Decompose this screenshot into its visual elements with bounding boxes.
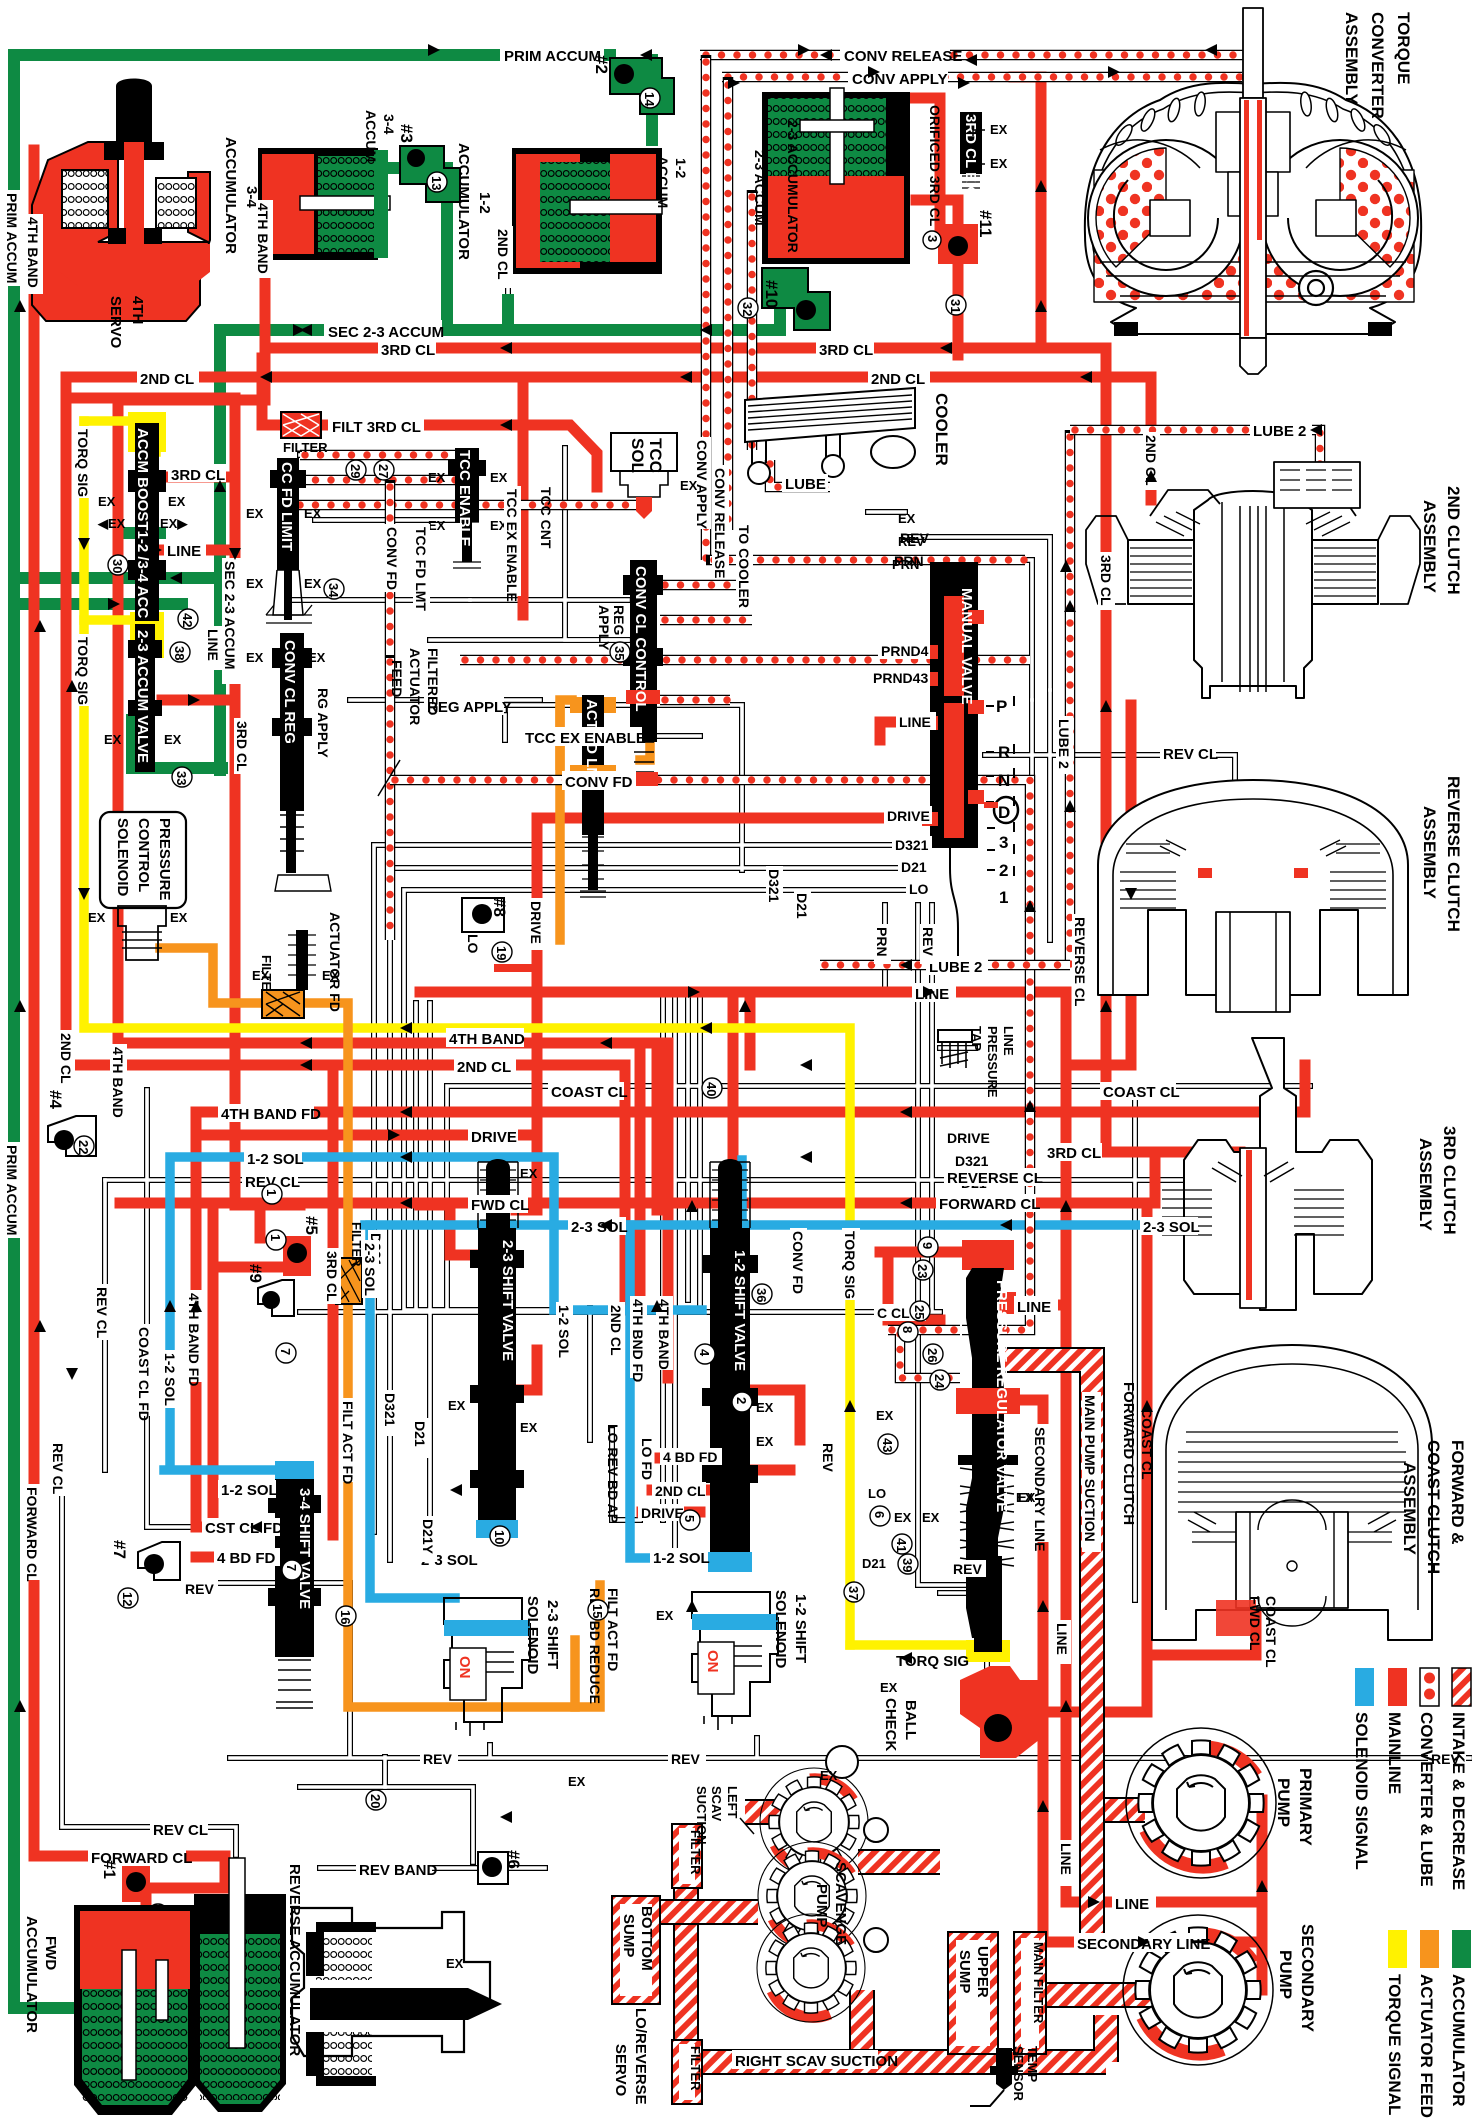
wire 1-2 SOL blue main bbox=[164, 1157, 702, 1470]
svg-text:#3: #3 bbox=[397, 124, 416, 143]
label COOLER vertical bbox=[932, 393, 951, 466]
label TO COOLER vertical bbox=[736, 522, 753, 608]
svg-text:ON: ON bbox=[704, 1650, 721, 1673]
wire REV bottom long channel bbox=[215, 1565, 1470, 1758]
label 3RD CLUTCH ASSEMBLY bbox=[1416, 1126, 1459, 1235]
label 3RD CL trunk bbox=[378, 339, 436, 359]
label REVERSE CLUTCH ASSEMBLY bbox=[1420, 776, 1463, 932]
wire TCC EX ENABLE channel bbox=[527, 733, 700, 739]
svg-text:COAST CL: COAST CL bbox=[551, 1084, 628, 1101]
svg-text:9: 9 bbox=[920, 1242, 935, 1249]
svg-text:RG APPLY: RG APPLY bbox=[315, 688, 331, 758]
svg-text:RIGHT SCAV SUCTION: RIGHT SCAV SUCTION bbox=[735, 2053, 898, 2070]
label TCC FD LMT vertical bbox=[413, 524, 430, 611]
label D321 vertical bbox=[766, 866, 783, 914]
valve ACT FD LMT bbox=[560, 695, 616, 897]
label REV regulator bbox=[950, 1560, 986, 1577]
svg-text:FWD: FWD bbox=[42, 1936, 59, 1970]
ball check 5 bbox=[266, 1230, 311, 1276]
label LINE hatched vertical bbox=[1054, 1620, 1071, 1664]
legend swatch INTAKE and DECREASE bbox=[1449, 1668, 1471, 1890]
svg-text:LUBE 2: LUBE 2 bbox=[929, 959, 982, 976]
wire scavenge discharge hatched bbox=[686, 1812, 862, 2095]
ball check 2 bbox=[610, 58, 674, 114]
svg-text:REVERSE CL: REVERSE CL bbox=[947, 1170, 1043, 1187]
label REV long line bbox=[420, 1750, 458, 1767]
svg-text:FWD CL: FWD CL bbox=[471, 1197, 529, 1214]
wire conv apply vertical dotted bbox=[723, 77, 734, 530]
label EX pressure control solenoid bbox=[88, 910, 188, 925]
label LINE pump bbox=[1112, 1893, 1156, 1913]
label 4TH BAND FD bbox=[218, 1104, 321, 1123]
wire LUBE 2 upper dotted bbox=[1070, 430, 1320, 502]
svg-text:TCC EX ENABLE: TCC EX ENABLE bbox=[504, 489, 520, 602]
wire LINE to 4th band connector red bbox=[745, 992, 756, 1065]
svg-text:REV: REV bbox=[820, 1443, 836, 1472]
svg-text:PUMP: PUMP bbox=[813, 1884, 830, 1927]
svg-text:SEC 2-3 ACCUM: SEC 2-3 ACCUM bbox=[328, 324, 444, 341]
svg-text:4TH: 4TH bbox=[129, 296, 146, 324]
label D21Y thin vertical bbox=[420, 1516, 437, 1562]
solenoid 2-3 SHIFT SOLENOID bbox=[444, 1598, 530, 1736]
component FILTER top (3rd cl filter) bbox=[281, 412, 321, 438]
svg-text:3RD CLUTCH: 3RD CLUTCH bbox=[1440, 1126, 1459, 1235]
svg-text:43: 43 bbox=[880, 1438, 895, 1452]
svg-text:SERVO: SERVO bbox=[612, 2044, 629, 2097]
svg-text:EX: EX bbox=[428, 470, 446, 485]
circled numbers bottom bbox=[262, 1078, 950, 1626]
label CONV RELEASE vertical bbox=[712, 465, 729, 578]
svg-text:4TH BAND: 4TH BAND bbox=[110, 1047, 126, 1118]
svg-text:LO: LO bbox=[465, 934, 481, 954]
svg-text:15: 15 bbox=[590, 1604, 605, 1618]
svg-text:D21Y: D21Y bbox=[420, 1519, 436, 1555]
svg-text:LINE: LINE bbox=[205, 629, 221, 661]
label SCAV SUCTION bbox=[694, 1786, 724, 1845]
svg-text:ASSEMBLY: ASSEMBLY bbox=[1420, 500, 1439, 594]
svg-text:LINE: LINE bbox=[1054, 1623, 1070, 1655]
svg-text:TAP: TAP bbox=[969, 1026, 984, 1051]
svg-text:EX: EX bbox=[922, 1510, 940, 1525]
svg-text:FORWARD &: FORWARD & bbox=[1448, 1440, 1467, 1545]
wire D321 from manual valve bbox=[374, 845, 930, 1532]
svg-text:UPPER: UPPER bbox=[974, 1946, 991, 1998]
label CST CL FD bbox=[202, 1518, 283, 1537]
component MAIN FILTER bbox=[1014, 1932, 1046, 2054]
svg-text:REV CL: REV CL bbox=[153, 1822, 208, 1839]
svg-text:FILT 3RD CL: FILT 3RD CL bbox=[332, 419, 421, 436]
svg-text:EX: EX bbox=[246, 650, 264, 665]
label SEC 2-3 ACCUM vertical bbox=[222, 558, 241, 684]
svg-text:PUMP: PUMP bbox=[1276, 1950, 1295, 1999]
svg-text:CONVERTER & LUBE: CONVERTER & LUBE bbox=[1417, 1712, 1436, 1887]
valve CONV CL REG bbox=[272, 633, 331, 891]
svg-text:LO: LO bbox=[909, 881, 929, 897]
svg-text:31: 31 bbox=[948, 299, 963, 313]
wire green 2-3 accum valve left side bbox=[126, 533, 222, 768]
valve 1-2 SHIFT VALVE bbox=[702, 1159, 758, 1572]
wire 3-4 shift valve left ports bbox=[200, 1527, 278, 1557]
wire tcc maze dotted h2 bbox=[295, 500, 640, 511]
wire cooler lube dotted bbox=[770, 460, 830, 487]
component FWD ACCUMULATOR bbox=[74, 1905, 196, 2115]
wire 2-3 accum to ball 11 red bbox=[916, 200, 958, 355]
svg-text:#8: #8 bbox=[490, 898, 509, 917]
wire LINE red to pressure regulator bbox=[1005, 1300, 1066, 1311]
wire PRIM ACCUM green top bbox=[14, 49, 610, 61]
label 2ND CLUTCH ASSEMBLY bbox=[1420, 486, 1463, 595]
label RIGHT SCAV SUCTION bbox=[732, 2050, 898, 2070]
svg-text:TCC ENABLE: TCC ENABLE bbox=[456, 450, 473, 547]
wire REV CL vertical left bbox=[102, 1180, 108, 1470]
svg-text:1-2: 1-2 bbox=[673, 158, 689, 178]
label D21 fan bbox=[958, 1174, 994, 1191]
wire 1-2 SOL blue bottom bbox=[630, 1225, 740, 1558]
label REV long line right bbox=[668, 1750, 706, 1767]
label 4 BD FD port bbox=[660, 1448, 722, 1465]
svg-text:FORWARD CL: FORWARD CL bbox=[939, 1196, 1040, 1213]
label SEC 2-3 ACCUM bbox=[324, 320, 444, 341]
svg-text:24: 24 bbox=[932, 1374, 947, 1389]
component 2-3 ACCUMULATOR bbox=[762, 88, 910, 264]
svg-text:EX: EX bbox=[568, 1774, 586, 1789]
wire FORWARD CLUTCH right vertical red bbox=[1050, 1203, 1147, 1712]
svg-text:4TH BAND: 4TH BAND bbox=[255, 203, 271, 274]
svg-text:1-2 SOL: 1-2 SOL bbox=[221, 1482, 278, 1499]
ball check 11 bbox=[923, 224, 978, 315]
label 1-2 SOL bbox=[244, 1149, 304, 1168]
wire TCC CNT channel bbox=[565, 448, 628, 640]
component TEMP SENSOR bbox=[970, 2048, 1018, 2106]
svg-text:N: N bbox=[998, 771, 1010, 790]
wire middle bundle verticals bbox=[663, 995, 700, 1560]
svg-text:2ND CL: 2ND CL bbox=[495, 229, 511, 280]
wire 4TH BAND accum drop red bbox=[118, 268, 265, 1043]
label LO manual bbox=[906, 880, 932, 897]
component 2ND CLUTCH ASSEMBLY bbox=[1086, 462, 1420, 698]
label CONV APPLY vertical bbox=[694, 437, 711, 530]
wire yellow frame accm boost bbox=[128, 412, 166, 452]
svg-text:APPLY: APPLY bbox=[596, 605, 612, 651]
ball check 9 bbox=[258, 1280, 296, 1363]
svg-text:2-3 ACCUMULATOR: 2-3 ACCUMULATOR bbox=[785, 120, 801, 253]
wire 4TH BAND FD vertical left red bbox=[196, 1112, 268, 1527]
svg-text:EX: EX bbox=[990, 156, 1008, 171]
label REV vertical low bbox=[820, 1440, 837, 1480]
label 2-3 SOL drop bbox=[418, 1550, 478, 1569]
svg-text:SERVO: SERVO bbox=[107, 296, 124, 349]
svg-text:TCC EX ENABLE: TCC EX ENABLE bbox=[525, 730, 646, 747]
svg-text:PRESSURE: PRESSURE bbox=[985, 1026, 1000, 1098]
svg-text:1: 1 bbox=[999, 888, 1008, 907]
label FWD CL bbox=[468, 1195, 529, 1214]
label COAST CL left bbox=[548, 1082, 628, 1101]
svg-text:2-3 SOL: 2-3 SOL bbox=[1143, 1219, 1200, 1236]
svg-text:39: 39 bbox=[900, 1558, 915, 1572]
svg-text:MAINLINE: MAINLINE bbox=[1385, 1712, 1404, 1794]
svg-text:#5: #5 bbox=[302, 1216, 321, 1235]
wire DRIVE red from manual valve bbox=[196, 818, 935, 1135]
label LUBE bbox=[782, 474, 828, 493]
wire 4TH BAND FD red bbox=[196, 1065, 1305, 1112]
label TORQ SIG vertical 1 bbox=[75, 426, 93, 498]
label TORQ SIG vertical 2 bbox=[75, 634, 93, 706]
label REV BAND bbox=[356, 1860, 438, 1879]
svg-text:REVERSE CLUTCH: REVERSE CLUTCH bbox=[1444, 776, 1463, 932]
wire FILT 3RD CL red bbox=[262, 358, 597, 487]
label 2ND CL right bbox=[868, 368, 930, 388]
label REV vertical bbox=[920, 924, 937, 964]
svg-text:2ND CL: 2ND CL bbox=[608, 1305, 624, 1356]
wire to cooler vertical dotted bbox=[747, 190, 758, 450]
svg-text:LINE: LINE bbox=[1058, 1843, 1074, 1875]
valve PRESSURE REGULATOR VALVE bbox=[956, 1240, 1020, 1662]
component 4TH SERVO bbox=[32, 79, 210, 322]
component BALL CHECK bbox=[960, 1666, 1044, 1758]
label D321 thin vertical bbox=[382, 1390, 399, 1436]
wire 4TH BAND servo drop red bbox=[29, 150, 40, 1856]
wire TORQ SIG yellow to regulator bbox=[850, 1640, 965, 1650]
svg-text:23: 23 bbox=[915, 1264, 930, 1278]
label TORQUE CONVERTER ASSEMBLY bbox=[1342, 12, 1413, 119]
valve 3-4 SHIFT VALVE bbox=[268, 1461, 321, 1708]
label PRND43 bbox=[870, 668, 930, 686]
label REV CL vertical low bbox=[50, 1440, 67, 1496]
label LINE accm boost bbox=[164, 540, 206, 560]
svg-text:LO FD: LO FD bbox=[639, 1438, 655, 1480]
svg-text:FILT ACT FD: FILT ACT FD bbox=[605, 1588, 621, 1671]
svg-text:D21: D21 bbox=[794, 893, 810, 919]
component TORQUE CONVERTER ASSEMBLY bbox=[1085, 8, 1421, 374]
svg-text:SOL: SOL bbox=[628, 438, 647, 473]
label DRIVE fan bbox=[944, 1128, 992, 1146]
svg-text:ASSEMBLY: ASSEMBLY bbox=[1342, 12, 1361, 106]
svg-text:2ND CL: 2ND CL bbox=[655, 1483, 706, 1499]
svg-text:D21: D21 bbox=[901, 859, 927, 875]
svg-text:CC FD LIMIT: CC FD LIMIT bbox=[278, 462, 295, 551]
svg-text:EX: EX bbox=[756, 1400, 774, 1415]
component 1-2 ACCUMULATOR bbox=[512, 148, 662, 274]
svg-text:LO: LO bbox=[868, 1486, 886, 1501]
ball check 6 bbox=[478, 1852, 508, 1884]
label 3-4 ACCUMULATOR bbox=[222, 137, 260, 254]
svg-text:PRN: PRN bbox=[874, 927, 890, 957]
svg-text:CONV CL CONTROL: CONV CL CONTROL bbox=[632, 566, 649, 712]
component FILTER orange small (filt act fd lower) bbox=[336, 1258, 362, 1304]
svg-text:LINE: LINE bbox=[1115, 1896, 1149, 1913]
wire REV vertical below manual valve bbox=[918, 905, 965, 1585]
svg-text:1-2 SHIFT: 1-2 SHIFT bbox=[792, 1594, 809, 1663]
svg-text:REV CL: REV CL bbox=[94, 1287, 110, 1339]
label number8 bbox=[465, 898, 509, 954]
wire secondary line pump red bbox=[1043, 1942, 1262, 1990]
wire COAST CL FD vertical bbox=[147, 1090, 200, 1527]
svg-text:PRIM ACCUM: PRIM ACCUM bbox=[504, 48, 601, 65]
label REVERSE CL vertical bbox=[1072, 914, 1089, 1007]
svg-text:D321: D321 bbox=[382, 1393, 398, 1427]
svg-text:ACTUATOR: ACTUATOR bbox=[407, 648, 423, 725]
label PRIM ACCUM bbox=[500, 44, 604, 65]
wire FWD CL red bbox=[120, 1152, 1155, 1203]
label EX pairs accm boost bbox=[97, 494, 188, 531]
wire REV CL red top right bbox=[1147, 1600, 1256, 1655]
svg-text:EX: EX bbox=[520, 1166, 538, 1181]
svg-text:D321: D321 bbox=[766, 869, 782, 903]
label DRIVE vertical bbox=[528, 898, 545, 950]
label 1-2 SOL vertical mid2 bbox=[556, 1302, 573, 1360]
svg-text:EX: EX bbox=[490, 470, 508, 485]
wire D21 from manual valve bbox=[390, 868, 928, 1560]
wire accm boost 3rd cl drop red bbox=[158, 545, 235, 556]
wire SECONDARY LINE red bbox=[1038, 1400, 1049, 1942]
valve ACCM BOOST 1-2/3-4 ACC bbox=[128, 423, 166, 621]
wire ball 8 to drive stub bbox=[498, 964, 537, 972]
label DRIVE left bbox=[468, 1127, 518, 1146]
svg-text:3-4: 3-4 bbox=[381, 114, 397, 134]
svg-text:DRIVE: DRIVE bbox=[641, 1505, 684, 1521]
svg-text:3RD CL: 3RD CL bbox=[819, 342, 873, 359]
legend swatch ACTUATOR FEED bbox=[1417, 1930, 1439, 2118]
label EX orificed bbox=[973, 122, 1008, 171]
svg-text:29: 29 bbox=[348, 464, 363, 478]
label 1-2 SOL mid bbox=[650, 1548, 710, 1567]
component REVERSE ACCUMULATOR bbox=[194, 1858, 286, 2112]
svg-text:EX: EX bbox=[446, 1956, 464, 1971]
label LO fan bbox=[964, 1196, 994, 1213]
svg-text:DRIVE: DRIVE bbox=[471, 1129, 517, 1146]
svg-text:EX: EX bbox=[820, 1768, 838, 1783]
label TORQ SIG vertical mid bbox=[842, 1228, 860, 1300]
svg-text:FORWARD CL: FORWARD CL bbox=[24, 1487, 40, 1582]
svg-text:6: 6 bbox=[872, 1511, 887, 1518]
solenoid TCC SOL bbox=[611, 433, 677, 519]
svg-text:EX: EX bbox=[428, 518, 446, 533]
svg-text:PRESSURE REGULATOR VALVE: PRESSURE REGULATOR VALVE bbox=[993, 1280, 1010, 1512]
wire SEC 2-3 ACCUM green bbox=[232, 280, 780, 330]
svg-text:P: P bbox=[996, 697, 1007, 716]
svg-text:EX▶: EX▶ bbox=[160, 516, 188, 531]
label SECONDARY PUMP bbox=[1276, 1924, 1317, 2033]
svg-text:LO/REVERSE: LO/REVERSE bbox=[632, 2008, 649, 2105]
svg-text:R: R bbox=[998, 743, 1010, 762]
valve MANUAL VALVE bbox=[922, 562, 984, 963]
svg-text:1-2: 1-2 bbox=[476, 192, 493, 214]
svg-text:2-3 ACCUM VALVE: 2-3 ACCUM VALVE bbox=[134, 630, 151, 763]
label PRIM ACCUM vertical bottom bbox=[4, 1142, 23, 1238]
svg-text:38: 38 bbox=[172, 646, 187, 660]
wire CONV APPLY dotted bbox=[722, 72, 1242, 83]
svg-text:5: 5 bbox=[682, 1515, 697, 1522]
svg-text:3RD CL: 3RD CL bbox=[1047, 1145, 1101, 1162]
label 2ND CL vertical right bbox=[1143, 432, 1160, 490]
svg-text:42: 42 bbox=[180, 613, 195, 627]
legend swatch SOLENOID SIGNAL bbox=[1352, 1668, 1374, 1870]
valve CONV CL REG lower spring bbox=[252, 930, 340, 1000]
ball check 1 bbox=[122, 1866, 168, 1924]
svg-text:REV CL: REV CL bbox=[50, 1443, 66, 1495]
wire 3RD CL red main bbox=[270, 77, 1240, 1152]
legend swatch CONVERTER and LUBE bbox=[1417, 1668, 1439, 1887]
label SCAVENGE PUMP bbox=[813, 1862, 849, 1945]
svg-text:20: 20 bbox=[368, 1794, 383, 1808]
wire LINE red manual valve stub bbox=[880, 722, 935, 740]
svg-text:19: 19 bbox=[494, 946, 509, 960]
svg-text:◀EX: ◀EX bbox=[97, 516, 126, 531]
svg-text:ASSEMBLY: ASSEMBLY bbox=[1416, 1138, 1435, 1232]
svg-text:FILTER: FILTER bbox=[283, 440, 328, 455]
label CC FD LIMIT EX bbox=[246, 506, 322, 591]
label FORWARD CL bbox=[936, 1194, 1040, 1213]
svg-text:#4: #4 bbox=[46, 1090, 65, 1109]
svg-text:33: 33 bbox=[174, 771, 189, 785]
svg-text:TORQ SIG: TORQ SIG bbox=[842, 1231, 858, 1299]
svg-text:DRIVE: DRIVE bbox=[947, 1130, 990, 1146]
svg-text:ACTUATOR FEED: ACTUATOR FEED bbox=[1417, 1974, 1436, 2118]
wire orange act fd lmt loop bbox=[560, 660, 650, 940]
svg-text:ACCUMULATOR: ACCUMULATOR bbox=[1449, 1974, 1468, 2107]
wire green sec accum left drops bbox=[214, 330, 226, 770]
svg-text:TORQUE SIGNAL: TORQUE SIGNAL bbox=[1385, 1974, 1404, 2115]
svg-text:LUBE: LUBE bbox=[785, 476, 826, 493]
label CONV FD horizontal bbox=[562, 771, 636, 791]
wire conv release vertical dotted bbox=[701, 55, 712, 560]
svg-text:3-4 SHIFT VALVE: 3-4 SHIFT VALVE bbox=[296, 1488, 313, 1609]
svg-text:4 BD FD: 4 BD FD bbox=[217, 1550, 276, 1567]
label REV CL left bbox=[242, 1172, 300, 1191]
svg-text:#7: #7 bbox=[110, 1540, 129, 1559]
label SECONDARY LINE pump bbox=[1074, 1933, 1210, 1953]
svg-text:TORQ SIG: TORQ SIG bbox=[75, 429, 91, 497]
svg-text:8: 8 bbox=[900, 1326, 915, 1333]
svg-text:2ND CLUTCH: 2ND CLUTCH bbox=[1444, 486, 1463, 595]
svg-text:10: 10 bbox=[492, 1530, 507, 1544]
svg-text:INTAKE & DECREASE: INTAKE & DECREASE bbox=[1449, 1712, 1468, 1890]
svg-text:1-2 SOL: 1-2 SOL bbox=[653, 1550, 710, 1567]
svg-text:PRND43: PRND43 bbox=[873, 670, 928, 686]
label 2ND CL horizontal lower bbox=[454, 1056, 516, 1076]
wire COAST CL horizontal bbox=[447, 1086, 1310, 1310]
wire LINE red main bbox=[420, 992, 1066, 1902]
wire 2-3 SOL blue main bbox=[365, 1220, 1310, 1230]
label COAST CL right bbox=[1100, 1082, 1180, 1101]
svg-text:ACTUATOR FD: ACTUATOR FD bbox=[327, 912, 343, 1012]
svg-text:REV: REV bbox=[900, 530, 929, 546]
svg-text:COAST CL: COAST CL bbox=[1139, 1408, 1155, 1480]
svg-text:EX: EX bbox=[520, 1420, 538, 1435]
label 2-3 SOL left bbox=[568, 1217, 628, 1236]
svg-text:EX: EX bbox=[448, 1398, 466, 1413]
svg-text:ACCUMULATOR: ACCUMULATOR bbox=[222, 137, 239, 254]
label LUBE 2 horizontal upper bbox=[1250, 420, 1312, 440]
label 3-4 ACCUM ball3 bbox=[363, 110, 416, 162]
svg-text:35: 35 bbox=[612, 646, 627, 660]
component SCAVENGE PUMP bbox=[757, 1746, 888, 2022]
label TCC EX ENABLE horizontal bbox=[522, 727, 646, 747]
label 3RD CL vertical right bbox=[1098, 552, 1115, 610]
svg-text:DRIVE: DRIVE bbox=[528, 901, 544, 944]
legend swatch ACCUMULATOR bbox=[1449, 1930, 1471, 2107]
svg-text:2ND CL: 2ND CL bbox=[140, 371, 194, 388]
svg-text:EX: EX bbox=[756, 1434, 774, 1449]
svg-text:EX: EX bbox=[876, 1408, 894, 1423]
svg-text:LINE: LINE bbox=[899, 714, 931, 730]
svg-text:12: 12 bbox=[120, 1592, 135, 1606]
label COAST CL FD vertical bbox=[136, 1324, 153, 1421]
svg-text:2-3 SHIFT VALVE: 2-3 SHIFT VALVE bbox=[499, 1240, 516, 1361]
wire LINE red pump bottom bbox=[1066, 1897, 1262, 1908]
label LINE manual bbox=[896, 712, 936, 730]
label DRIVE manual bbox=[884, 806, 932, 824]
